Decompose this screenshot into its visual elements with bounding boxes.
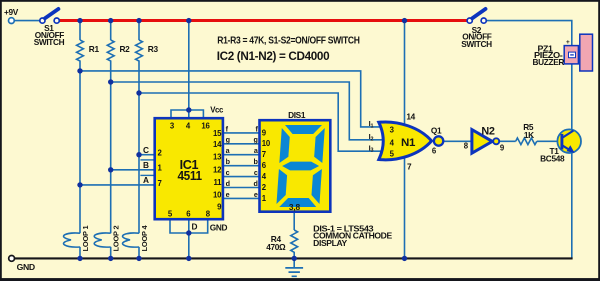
display DIS1 [260, 120, 331, 212]
wire DIS1 cathode 3,8 to R4 [293, 213, 295, 230]
svg-text:A: A [143, 175, 149, 185]
resistor R2 branch wire [110, 21, 112, 258]
loop LOOP2 [94, 233, 110, 247]
junction LOOP2 on ground rail [108, 256, 113, 261]
node R2 to I2 [108, 79, 113, 84]
switch S1 [40, 9, 60, 23]
node R3 to I3 [136, 90, 141, 95]
svg-text:d: d [226, 179, 230, 188]
label S2 ON/OFF SWITCH [461, 25, 492, 49]
DIS1 pin numbers [262, 128, 271, 203]
svg-text:e: e [254, 190, 258, 199]
wire S2 to piezo buzzer [486, 21, 572, 45]
svg-text:d: d [253, 179, 257, 188]
svg-text:LOOP 4: LOOP 4 [140, 225, 149, 252]
note DIS1 type [313, 224, 392, 247]
wire N1 pin 14 to +9V rail [404, 21, 406, 130]
separator line below C [140, 159, 153, 161]
svg-text:LOOP 1: LOOP 1 [81, 226, 90, 252]
label IC1 4511 [177, 157, 202, 183]
svg-text:SWITCH: SWITCH [34, 37, 65, 47]
junction Vcc on +9V rail [186, 18, 191, 23]
junction IC1 gnd wire on ground rail [186, 256, 191, 261]
wire node A to IC1 pin 7 [80, 184, 155, 186]
svg-text:1K: 1K [524, 130, 534, 140]
wire R1 node to N1 input I1 [80, 71, 383, 127]
svg-text:GND: GND [17, 262, 36, 272]
svg-text:7: 7 [262, 150, 266, 159]
DIS1 seven-segment digit [276, 125, 325, 207]
svg-text:e: e [226, 190, 230, 199]
loop LOOP1 [64, 233, 80, 247]
svg-text:N2: N2 [481, 126, 494, 138]
wire N2 output to R5 [499, 140, 516, 142]
junction R2 on +9V rail [108, 18, 113, 23]
svg-text:+9V: +9V [4, 7, 19, 17]
ground rail [15, 257, 573, 259]
junction IC1 ground bracket [186, 230, 191, 235]
wire Vcc to IC1 pins 3,4,16 [171, 21, 203, 118]
svg-text:SWITCH: SWITCH [461, 39, 492, 49]
node C [136, 152, 141, 157]
junction R4 on ground rail [292, 256, 297, 261]
svg-text:15: 15 [213, 129, 222, 138]
svg-text:4511: 4511 [177, 168, 202, 183]
node R1 to I1 [77, 68, 82, 73]
svg-text:470Ω: 470Ω [266, 242, 286, 252]
svg-text:Vcc: Vcc [210, 106, 224, 115]
IC1 CD4511 [155, 118, 223, 219]
svg-text:DIS1: DIS1 [288, 110, 306, 120]
svg-text:7: 7 [407, 161, 412, 171]
svg-text:11: 11 [213, 178, 222, 187]
svg-text:BC548: BC548 [540, 154, 565, 164]
wire segment b IC1 pin12 to DIS1 pin6 [224, 165, 259, 167]
junction LOOP1 on ground rail [77, 256, 82, 261]
label S1 ON/OFF SWITCH [34, 23, 65, 47]
loop LOOP4 [123, 233, 139, 247]
ground symbol under R4 [285, 268, 303, 276]
svg-text:R1: R1 [89, 44, 100, 54]
svg-text:D: D [192, 221, 198, 231]
svg-text:g: g [226, 135, 230, 144]
wire N1 output to N2 input [443, 140, 471, 142]
wire segment d IC1 pin10 to DIS1 pin2 [224, 187, 259, 189]
svg-text:10: 10 [262, 139, 271, 148]
svg-text:C: C [143, 145, 149, 155]
wire segment a IC1 pin13 to DIS1 pin7 [224, 154, 259, 156]
svg-text:16: 16 [201, 121, 210, 130]
resistor R1 branch wire [79, 21, 81, 258]
wire R2 node to N1 input I2 [111, 82, 384, 140]
svg-text:c: c [254, 168, 258, 177]
switch S2 [467, 9, 486, 23]
transistor T1 [557, 129, 581, 153]
NOR gate N1 [379, 122, 444, 160]
junction R3 on +9V rail [136, 18, 141, 23]
resistor R1 [77, 40, 84, 63]
svg-text:LOOP 2: LOOP 2 [112, 226, 121, 252]
svg-text:R1-R3 = 47K, S1-S2=ON/OFF SWIT: R1-R3 = 47K, S1-S2=ON/OFF SWITCH [217, 36, 360, 47]
junction N1 pin14 on +9V rail [402, 18, 407, 23]
wire segment e IC1 pin9 to DIS1 pin1 [224, 197, 259, 199]
svg-text:Q1: Q1 [431, 125, 442, 135]
wire IC1 pins 5,6,8 to ground [170, 220, 208, 258]
svg-text:c: c [226, 168, 230, 177]
resistor R5 [516, 138, 537, 145]
svg-text:R3: R3 [148, 44, 159, 54]
resistor R4 [291, 230, 298, 255]
wire segment f IC1 pin15 to DIS1 pin9 [224, 132, 259, 134]
wire node B to IC1 pin 1 [111, 169, 155, 171]
wire R3 node to N1 input I3 [139, 93, 383, 151]
GND terminal [9, 256, 15, 262]
+9V rail (red bus S1 to S2) [57, 19, 469, 22]
wire R5 to T1 base [537, 140, 561, 142]
resistor R3 [136, 40, 143, 63]
wire node C to IC1 pin 2 [139, 154, 155, 156]
label PZ1 PIEZO-BUZZER [533, 43, 565, 67]
wire segment c IC1 pin11 to DIS1 pin4 [224, 176, 259, 178]
wire R4 to ground symbol [293, 255, 295, 268]
svg-text:12: 12 [213, 166, 222, 175]
svg-text:14: 14 [213, 140, 222, 149]
segment letters DIS1 side [253, 124, 258, 199]
svg-text:13: 13 [213, 153, 222, 162]
junction R1 on +9V rail [77, 18, 82, 23]
node A [77, 182, 82, 187]
svg-text:7: 7 [158, 179, 162, 188]
svg-text:+: + [566, 39, 570, 46]
wire N1 pin 7 to ground [404, 152, 406, 258]
separator line below B [140, 174, 153, 176]
svg-text:14: 14 [406, 112, 415, 122]
+9V terminal [9, 18, 15, 24]
svg-text:GND: GND [210, 223, 228, 233]
svg-text:B: B [143, 160, 149, 170]
svg-text:DISPLAY: DISPLAY [313, 239, 348, 248]
junction Vcc bracket [186, 107, 191, 112]
svg-text:R2: R2 [120, 44, 131, 54]
inverter N2 [472, 130, 499, 154]
node B [108, 167, 113, 172]
wire buzzer to T1 collector [571, 64, 573, 130]
svg-text:10: 10 [213, 190, 222, 199]
junction LOOP4 on ground rail [136, 256, 141, 261]
resistor R3 branch wire [138, 21, 140, 258]
piezo buzzer PZ1 [564, 34, 592, 71]
wire +9V terminal to S1 [14, 20, 40, 22]
junction N1 pin7 on ground rail [402, 256, 407, 261]
wire T1 emitter to ground [571, 152, 573, 258]
resistor R2 [107, 40, 114, 63]
svg-text:BUZZER: BUZZER [533, 57, 565, 67]
wire segment g IC1 pin14 to DIS1 pin10 [224, 143, 259, 145]
svg-text:N1: N1 [401, 137, 415, 149]
svg-text:IC2 (N1-N2) = CD4000: IC2 (N1-N2) = CD4000 [217, 49, 330, 63]
segment letters IC1 side [226, 124, 231, 199]
svg-text:g: g [253, 135, 257, 144]
svg-text:3,8: 3,8 [289, 202, 301, 212]
